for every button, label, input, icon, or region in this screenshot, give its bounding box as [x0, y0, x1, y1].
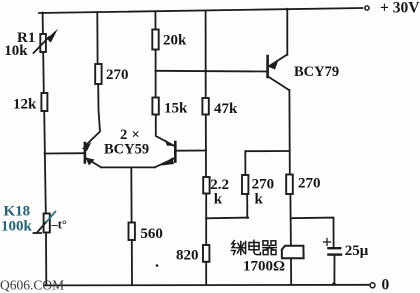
wire 820 top	[205, 219, 207, 246]
svg-text:–t°: –t°	[51, 218, 67, 232]
wire 560 to bottom rail	[131, 240, 133, 285]
wire left column top (rail to R1)	[42, 13, 44, 35]
label relay chinese (hand-drawn strokes: 继电器)	[232, 240, 277, 254]
svg-text:100k: 100k	[1, 219, 33, 235]
wire 47k to base node	[205, 115, 207, 178]
svg-text:K18: K18	[4, 204, 31, 220]
terminal 0	[370, 283, 375, 288]
transistor Q2 right BCY59	[155, 140, 176, 168]
wire branch to capacitor	[291, 218, 334, 248]
svg-text:BCY59: BCY59	[104, 142, 149, 158]
svg-text:270: 270	[298, 176, 321, 192]
svg-text:47k: 47k	[214, 101, 238, 117]
svg-text:0: 0	[382, 277, 390, 293]
svg-text:15k: 15k	[164, 101, 188, 117]
node 2.2k/820/270 junction wire	[206, 217, 248, 220]
wire 270#1 bottom leg	[246, 194, 248, 218]
transistor U2 BCY79	[268, 55, 289, 91]
wire capacitor to bottom rail	[333, 255, 335, 284]
wire BCY79 emitter to rail	[286, 9, 288, 55]
wire left column (K18 to bottom rail)	[45, 233, 47, 286]
resistor 20k	[152, 30, 158, 50]
svg-text:Q606.COM: Q606.COM	[0, 278, 64, 293]
wire 820 to bottom rail	[205, 262, 207, 285]
capacitor 25u	[324, 239, 342, 255]
wire left column (12k to K18)	[44, 111, 46, 213]
transistor Q1 left BCY59	[85, 143, 101, 167]
resistor 270 k (first)	[242, 175, 248, 194]
terminal +30V	[365, 6, 369, 10]
svg-text:560: 560	[140, 226, 163, 242]
wire left column (R1 to 12k)	[42, 52, 45, 93]
wire relay to bottom rail	[290, 258, 292, 284]
svg-text:+ 30V: + 30V	[380, 0, 420, 17]
wire base of left BCY59	[45, 152, 85, 154]
resistor 560	[129, 223, 135, 241]
resistor 270 (second)	[286, 175, 293, 195]
resistor 2.2k	[203, 177, 209, 194]
wire base of right BCY59	[176, 150, 206, 152]
label 2x	[120, 127, 140, 143]
svg-text:270: 270	[106, 67, 129, 83]
svg-text:BCY79: BCY79	[294, 64, 339, 80]
relay coil 1700 ohm	[282, 246, 304, 258]
svg-text:20k: 20k	[163, 33, 187, 49]
wire 2.2k to node	[205, 194, 207, 219]
resistor 270 (upper left)	[95, 64, 101, 84]
resistor 12k	[41, 93, 47, 111]
arrow on left collector	[82, 142, 92, 151]
svg-text:25μ: 25μ	[345, 243, 369, 259]
svg-text:10k: 10k	[4, 43, 28, 59]
svg-text:270: 270	[252, 177, 275, 193]
wire 270#1 top to BCY79 collector	[245, 151, 289, 175]
node cap/rail junction	[332, 282, 335, 285]
thermistor K18 100k	[34, 212, 56, 233]
wire tail to 560	[130, 167, 132, 222]
stray dot	[156, 264, 159, 267]
wire top +30V rail	[39, 8, 363, 13]
wire 20k to junction	[155, 50, 157, 98]
wire BCY79 collector down	[288, 90, 290, 175]
svg-text:12k: 12k	[13, 97, 37, 113]
wire common emitter tail horizontal	[101, 166, 155, 168]
wire 270 to left collector	[87, 84, 101, 145]
svg-text:820: 820	[176, 248, 199, 264]
resistor 15k	[152, 98, 158, 115]
svg-text:k: k	[255, 192, 264, 208]
resistor 47k	[202, 98, 208, 115]
wire 270 branch from rail	[96, 12, 98, 64]
svg-text:k: k	[214, 192, 223, 208]
wire 15k to right collector	[156, 115, 175, 147]
resistor R1 (10k potentiometer)	[34, 29, 59, 54]
node 20k/15k junction with wire to BCY79 base	[156, 70, 268, 73]
resistor 820	[203, 245, 209, 262]
wire 47k branch from rail	[205, 11, 207, 99]
wire 270#2 to relay	[289, 194, 292, 246]
wire bottom 0V rail	[44, 284, 370, 287]
wire 20k branch from rail	[154, 12, 156, 30]
svg-text:1700Ω: 1700Ω	[243, 259, 285, 275]
